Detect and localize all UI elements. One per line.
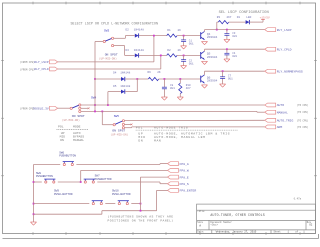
- svg-text:(TO CPU): (TO CPU): [297, 126, 309, 129]
- svg-text:ON SPDT: ON SPDT: [105, 52, 118, 56]
- wire bottom staircase: [34, 211, 157, 215]
- svg-text:+15/5V: +15/5V: [260, 16, 270, 20]
- port flag AUTO_TRIG: [265, 118, 294, 122]
- diode D2: [135, 33, 139, 37]
- label SW8 PUSHBUTTON: [36, 172, 53, 178]
- svg-text:Wednesday, January 27, 2010: Wednesday, January 27, 2010: [216, 231, 257, 234]
- label R3 4K7: [217, 16, 232, 19]
- wire D4 to node: [125, 78, 137, 80]
- label ON SPDT (SW3): [99, 52, 118, 60]
- label C3 0U1: [232, 32, 237, 38]
- junction bus/SW8 row: [33, 181, 35, 183]
- label ON SPST (SW5): [112, 128, 125, 132]
- note above title block: [294, 197, 302, 200]
- junction row3/C7: [222, 70, 224, 72]
- wire wireA to AUTO: [81, 104, 265, 106]
- wire TOGGLE_3V to SW4: [58, 107, 70, 109]
- label SW3: [104, 29, 109, 32]
- junction bus/ground: [33, 213, 35, 215]
- port flag TOGGLE_3V (from CPU): [32, 106, 57, 110]
- svg-text:ON SPDT: ON SPDT: [72, 114, 85, 118]
- pushbutton SW7: [84, 179, 95, 183]
- svg-text:0U1: 0U1: [232, 35, 237, 38]
- svg-text:RLY_NORMBYPASS: RLY_NORMBYPASS: [277, 69, 303, 73]
- label R2 2K: [167, 49, 181, 52]
- junction row1/C3: [226, 29, 228, 31]
- svg-text:POL: POL: [136, 125, 143, 129]
- svg-text:1N4148: 1N4148: [134, 29, 144, 32]
- svg-text:02: 02: [309, 224, 313, 227]
- svg-text:LED: LED: [246, 16, 251, 19]
- svg-text:MANUAL: MANUAL: [73, 138, 84, 142]
- resistor R6: [148, 77, 158, 80]
- wire riser wireA to D5 row: [107, 92, 109, 105]
- svg-text:R6: R6: [148, 71, 152, 74]
- label SW10 PUSH-BUTTON: [112, 190, 131, 196]
- svg-text:A: A: [199, 225, 201, 228]
- ground R10: [177, 97, 183, 100]
- wire riser to R3 line: [217, 22, 219, 30]
- svg-text:PUSHBUTTON: PUSHBUTTON: [36, 175, 53, 178]
- pushbutton SW6: [63, 162, 74, 166]
- svg-text:(UP-MID-DN): (UP-MID-DN): [111, 132, 129, 136]
- svg-text:2K: 2K: [178, 49, 182, 52]
- capacitor C4: [224, 49, 229, 59]
- label C8 0U1: [170, 84, 175, 90]
- svg-text:POSITIONED ON THE FRONT PANEL): POSITIONED ON THE FRONT PANEL): [108, 218, 174, 222]
- svg-text:AUTO-MODE, MANUAL LBM: AUTO-MODE, MANUAL LBM: [154, 135, 206, 139]
- svg-text:FP8_ENTER: FP8_ENTER: [180, 189, 197, 193]
- wire R10 top lead: [179, 79, 181, 83]
- title block small text: [197, 210, 311, 233]
- svg-text:2N3904: 2N3904: [207, 80, 218, 83]
- svg-text:SW3: SW3: [104, 29, 109, 32]
- svg-text:SW4: SW4: [91, 96, 96, 99]
- label D5 1N4148: [113, 85, 130, 88]
- port flag FP8_S: [168, 182, 189, 186]
- port flag RLY_LSCP (from CPU): [34, 60, 57, 64]
- pushbutton SW10: [118, 201, 129, 205]
- port flag AUTO: [265, 103, 285, 107]
- wire SW3 throwA to D2 row: [114, 36, 135, 39]
- svg-text:(FROM CPU): (FROM CPU): [20, 68, 35, 71]
- port flag FP8_W: [168, 169, 189, 173]
- svg-text:D3: D3: [126, 49, 130, 52]
- label SW5: [114, 115, 119, 118]
- note (TO CPU) 3: [297, 119, 309, 122]
- wire riser to FP8_ENTER: [157, 190, 168, 210]
- resistor R1: [167, 34, 177, 37]
- junction row3/C8: [164, 78, 166, 80]
- wire SW3 throwB to D3 row: [114, 46, 135, 56]
- diode D1 LED: [246, 20, 250, 24]
- note (TO CPU) 1: [297, 104, 309, 107]
- junction row1/R3 riser: [216, 29, 218, 31]
- svg-text:PUSH-BUTTON: PUSH-BUTTON: [54, 193, 73, 196]
- wire R3 to D1: [229, 21, 246, 23]
- svg-text:Sheet: Sheet: [274, 231, 282, 234]
- pushbutton SW9: [92, 201, 103, 205]
- transistor Q6 2N3904: [201, 75, 218, 83]
- junction row1/C1: [183, 35, 185, 37]
- diode D4: [121, 77, 125, 81]
- table SW4 modes: [57, 124, 89, 142]
- diode D5: [121, 89, 125, 93]
- svg-text:0U1: 0U1: [228, 77, 233, 80]
- svg-text:(FROM CPU): (FROM CPU): [20, 61, 35, 64]
- capacitor C2: [181, 55, 186, 65]
- ground Q4 emitter: [202, 42, 208, 45]
- wire riser wireB to SW5: [102, 111, 113, 124]
- svg-text:(PUSHBUTTONS SHOWN AS THEY ARE: (PUSHBUTTONS SHOWN AS THEY ARE: [108, 215, 174, 219]
- capacitor C1: [181, 36, 186, 46]
- svg-text:0U1: 0U1: [189, 62, 194, 65]
- svg-text:SEL LSCP CONFIGURATION: SEL LSCP CONFIGURATION: [219, 11, 269, 15]
- wire D5 row left: [108, 91, 121, 93]
- title block box: [197, 204, 316, 233]
- resistor R3: [218, 21, 228, 24]
- label C1 0U1: [189, 40, 194, 46]
- svg-text:2N3904: 2N3904: [207, 56, 218, 59]
- svg-text:(TO CPU): (TO CPU): [297, 104, 309, 107]
- svg-text:0U1: 0U1: [189, 43, 194, 46]
- wire node to R6: [137, 78, 148, 80]
- ground C4: [224, 59, 230, 62]
- junction SW3-common / D4 row: [94, 78, 96, 80]
- svg-text:R2: R2: [167, 49, 171, 52]
- port flag RLY_CPLD (from CPU): [34, 67, 57, 71]
- junction bus/bottom row: [33, 203, 35, 205]
- ground C1: [181, 46, 187, 49]
- junction staircase/riser: [140, 210, 142, 212]
- svg-text:TOGGLE_3V: TOGGLE_3V: [32, 107, 48, 110]
- wire RLY_CPLD to riser: [58, 68, 161, 70]
- wire SW5 mid throw stub: [125, 123, 133, 125]
- port flag FP8_ENTER: [168, 189, 197, 193]
- label SW7 PUSHBUTTON: [95, 175, 112, 181]
- svg-text:MODE: MODE: [73, 124, 81, 128]
- wire D2 to R1: [139, 35, 167, 37]
- label R6 2K: [148, 71, 161, 74]
- svg-text:RLY_CPLD: RLY_CPLD: [277, 47, 292, 51]
- svg-text:FP8_E: FP8_E: [180, 175, 189, 179]
- junction D4/D5 node: [136, 78, 138, 80]
- wire Q5 collector: [205, 49, 265, 51]
- junction riser FP8_E node: [140, 203, 142, 205]
- wire left bus: [33, 165, 35, 215]
- ground C8: [161, 97, 167, 100]
- label D1 LED: [237, 16, 252, 19]
- wire SW5 bottom throw to ARM: [125, 126, 265, 129]
- svg-text:MAN: MAN: [154, 138, 161, 142]
- svg-text:PUSH-BUTTON: PUSH-BUTTON: [112, 193, 131, 196]
- label SW4: [91, 96, 96, 99]
- transistor Q5 2N3904: [201, 51, 218, 59]
- wire D5 to node: [125, 79, 137, 92]
- junction row2/C2: [183, 55, 185, 57]
- note (FROM CPU) 2: [20, 68, 35, 71]
- junction riser/wireB: [94, 111, 96, 113]
- note (TO CPU) 4: [297, 126, 309, 129]
- pushbutton SW8: [44, 179, 55, 183]
- wire ground stub: [33, 214, 35, 222]
- svg-text:R1: R1: [167, 29, 171, 32]
- wire D3 to R2: [139, 54, 167, 56]
- note (UP-MID-DN) SW5: [111, 132, 129, 136]
- wire riser row3 to wireB: [94, 79, 96, 111]
- port flag RLY_CPLD (output): [265, 47, 292, 51]
- svg-text:0U1: 0U1: [232, 55, 237, 58]
- wire R2 to Q5 base: [177, 54, 200, 56]
- title block values: [199, 222, 312, 233]
- wire SW6 row: [34, 163, 168, 166]
- label C2 0U1: [189, 59, 194, 65]
- port flag RLY_NORMBYPASS (output): [265, 69, 303, 73]
- svg-text:2N3904: 2N3904: [207, 36, 218, 39]
- svg-text:POL: POL: [58, 124, 64, 128]
- svg-text:(TO CPU): (TO CPU): [297, 111, 309, 114]
- svg-text:AUTO_TRIG: AUTO_TRIG: [277, 119, 294, 123]
- svg-text:1N4148: 1N4148: [120, 85, 130, 88]
- svg-text:FP8_A: FP8_A: [180, 162, 189, 166]
- junction wireB/SW5 riser: [101, 111, 103, 113]
- svg-text:(TO CPU): (TO CPU): [297, 119, 309, 122]
- svg-text:Date:: Date:: [197, 231, 204, 234]
- svg-text:6.47a: 6.47a: [294, 197, 302, 200]
- svg-text:D5: D5: [113, 85, 117, 88]
- label R1 2K: [167, 29, 181, 32]
- svg-text:ARM: ARM: [277, 125, 283, 129]
- svg-text:2K: 2K: [178, 29, 182, 32]
- svg-text:RLY_CPLD: RLY_CPLD: [34, 68, 49, 71]
- diode D3: [135, 53, 139, 57]
- svg-text:ON SPST: ON SPST: [112, 128, 125, 132]
- svg-text:D2: D2: [126, 29, 130, 32]
- switch SW3 ON-SPDT: [103, 37, 113, 47]
- junction row3/R10: [179, 78, 181, 80]
- svg-text:PUSHBUTTON: PUSHBUTTON: [59, 155, 76, 158]
- label C4 0U1: [232, 52, 237, 58]
- svg-text:0U1: 0U1: [170, 87, 175, 90]
- svg-text:MANUAL: MANUAL: [277, 110, 288, 114]
- label D3 1N4148: [126, 49, 145, 52]
- wire SW5 top throw to AUTO_TRIG: [125, 119, 265, 121]
- svg-text:FP8_W: FP8_W: [180, 169, 189, 173]
- capacitor C3: [224, 30, 229, 40]
- junction SW8/SW7 node: [80, 181, 82, 183]
- wire R6 to Q6 base: [159, 78, 201, 80]
- wire Q4 collector: [205, 30, 265, 32]
- label R10 4K7: [186, 84, 191, 90]
- switch SW5 ON-SPDT: [113, 120, 124, 129]
- svg-text:DN: DN: [138, 138, 143, 142]
- junction row2/riser: [160, 55, 162, 57]
- ground Q5 emitter: [202, 61, 208, 64]
- wire R1 to Q4 base: [177, 35, 200, 37]
- label D2 1N4148: [126, 29, 145, 32]
- wire RLY_LSCP to riser: [58, 61, 154, 63]
- svg-text:Title: Title: [197, 210, 205, 213]
- resistor R2: [167, 54, 177, 57]
- port flag FP8_A: [168, 162, 189, 166]
- table SW5 modes: [136, 125, 238, 142]
- label C7 0U1: [228, 74, 233, 80]
- ground C2: [181, 66, 187, 69]
- port flag RLY_LSCP (output): [265, 28, 292, 32]
- wire D1 to +15/5V: [249, 20, 263, 23]
- capacitor C7: [220, 71, 225, 84]
- svg-text:R3: R3: [217, 16, 221, 19]
- note (FROM CPU) 1: [20, 61, 35, 64]
- wire riser RLY_CPLD up to row2: [160, 55, 162, 69]
- svg-text:(UP-MID-DN): (UP-MID-DN): [62, 118, 80, 122]
- label ON SPDT (SW4): [72, 114, 85, 118]
- svg-text:(UP-MID-DN): (UP-MID-DN): [99, 56, 117, 60]
- svg-text:PUSHBUTTON: PUSHBUTTON: [95, 178, 112, 181]
- wire R10 bottom lead: [179, 94, 181, 97]
- ground Q6 emitter: [202, 85, 208, 88]
- wire Q6 collector: [205, 71, 265, 75]
- svg-text:RLY_LSCP: RLY_LSCP: [34, 61, 49, 64]
- port flag FP8_E: [168, 175, 189, 179]
- wire D4 row left: [95, 78, 121, 80]
- junction wireA/riser D5: [107, 104, 109, 106]
- svg-text:Size: Size: [197, 221, 203, 224]
- power symbol +15/5V: [260, 16, 270, 20]
- svg-text:4K7: 4K7: [226, 16, 231, 19]
- wire SW3 common left-down: [95, 42, 103, 80]
- port flag MANUAL: [265, 110, 288, 114]
- svg-text:SW5: SW5: [114, 115, 119, 118]
- capacitor C8: [162, 79, 167, 97]
- title text SELECT LSCP OR CPLD L-NETWORK CONFIGURATION: [71, 22, 159, 26]
- wire SW4 mid stub: [81, 107, 90, 109]
- junction riser/wireA: [94, 104, 96, 106]
- svg-text:RLY_LSCP: RLY_LSCP: [277, 28, 292, 32]
- svg-text:<Doc>: <Doc>: [210, 222, 218, 226]
- label SW6 PUSHBUTTON: [59, 151, 76, 157]
- ground pushbutton bus: [31, 222, 37, 225]
- ground C3: [224, 39, 230, 42]
- svg-text:1N4148: 1N4148: [120, 71, 130, 74]
- title text SEL LSCP CONFIGURATION: [219, 11, 269, 15]
- svg-text:D1: D1: [237, 16, 241, 19]
- port flag ARM: [265, 125, 283, 129]
- wire SW8 row: [34, 181, 81, 183]
- wire SW7 row: [81, 182, 168, 184]
- svg-text:1N4148: 1N4148: [134, 49, 144, 52]
- note (TO CPU) 2: [297, 111, 309, 114]
- ground C7: [220, 84, 226, 87]
- svg-text:2K: 2K: [157, 71, 161, 74]
- svg-text:4K7: 4K7: [186, 87, 191, 90]
- switch SW4 ON-SPDT: [70, 104, 81, 113]
- title block title text: [210, 213, 264, 217]
- svg-text:AUTO-MODE TRIG: AUTO-MODE TRIG: [154, 125, 188, 129]
- svg-text:FP8_S: FP8_S: [180, 182, 189, 186]
- note pushbuttons position: [108, 215, 174, 223]
- wire SW8 riser to FP8_W: [81, 170, 168, 182]
- wire riser RLY_LSCP up to row1: [153, 36, 155, 62]
- svg-text:D4: D4: [113, 71, 117, 74]
- wire wireB to MANUAL: [81, 110, 265, 113]
- svg-text:AUTO-TUNER, OTHER CONTROLS: AUTO-TUNER, OTHER CONTROLS: [210, 213, 264, 217]
- junction row2/C4: [226, 48, 228, 50]
- resistor R10: [179, 83, 182, 93]
- wire riser to FP8_E: [141, 177, 168, 211]
- label SW9 PUSH-BUTTON: [54, 190, 73, 196]
- svg-text:SELECT LSCP OR CPLD L-NETWORK: SELECT LSCP OR CPLD L-NETWORK CONFIGURAT…: [71, 22, 159, 26]
- note (UP-MID-DN) SW4: [62, 118, 80, 122]
- svg-text:AUTO: AUTO: [277, 103, 285, 107]
- note (FROM CPU) 3: [20, 107, 35, 110]
- svg-text:DN: DN: [60, 138, 64, 142]
- transistor Q4 2N3904: [201, 31, 218, 39]
- junction row1/riser: [153, 35, 155, 37]
- wire bottom row: [34, 203, 141, 205]
- label D4 1N4148: [113, 71, 130, 74]
